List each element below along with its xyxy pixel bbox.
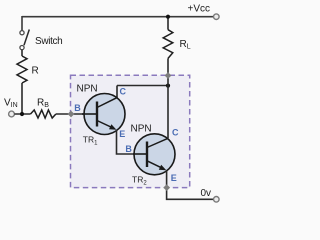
resistor RB [31, 110, 56, 118]
svg-text:+Vcc: +Vcc [188, 4, 211, 15]
svg-text:C: C [120, 87, 127, 97]
resistor R [17, 56, 27, 83]
svg-text:NPN: NPN [131, 124, 152, 135]
junction dot input node [20, 112, 24, 116]
resistor RL [163, 30, 173, 59]
switch S1 bottom contact [20, 46, 24, 50]
svg-text:0v: 0v [201, 188, 212, 199]
wire: TR1 collector to RL node [117, 85, 168, 87]
wire: rail to RL [167, 17, 169, 30]
canvas background [0, 0, 241, 209]
transistor TR2 collector lead [147, 138, 168, 147]
svg-text:E: E [119, 129, 125, 139]
svg-text:R: R [32, 66, 39, 77]
wire: TR2 emitter down to 0v [167, 171, 214, 200]
transistor TR1 base bar [96, 102, 98, 127]
wire: TR1 base lead inside body [82, 113, 97, 115]
svg-text:B: B [74, 103, 81, 113]
wire: Vin terminal to RB [14, 113, 30, 115]
+Vcc terminal [214, 14, 220, 20]
transistor TR1 collector lead [97, 86, 117, 108]
transistor TR2 base bar [146, 142, 148, 168]
transistor TR1 body [84, 94, 125, 135]
svg-text:B: B [125, 144, 132, 154]
junction dot collector node [166, 84, 170, 88]
transistor TR1 emitter arrowhead [109, 124, 117, 130]
switch S1 top contact [20, 31, 24, 35]
svg-text:NPN: NPN [77, 83, 98, 94]
transistor TR2 emitter lead [147, 161, 162, 168]
node diamond on box edge (collector) [165, 72, 172, 79]
wire: TR1 emitter to TR2 base [117, 130, 147, 154]
wire: R to input node [21, 83, 23, 114]
wire: switch to resistor R [21, 50, 23, 56]
wire: TR2 base lead inside body [133, 153, 147, 155]
Vin input terminal [9, 111, 15, 117]
wire: +Vcc top rail [22, 16, 214, 18]
darlington pair dashed enclosure box [71, 75, 190, 187]
node diamond on box edge (emitter) [163, 184, 170, 191]
wire: left rail down to switch [21, 16, 23, 31]
node diamond on box edge (base input) [68, 111, 75, 118]
wire: RL to TR2 collector [167, 58, 169, 138]
transistor TR2 emitter arrowhead [159, 165, 167, 171]
transistor TR2 body [134, 134, 175, 175]
svg-text:E: E [171, 173, 177, 183]
junction dot at rail [166, 15, 170, 19]
svg-text:C: C [172, 128, 179, 138]
svg-text:Switch: Switch [35, 36, 62, 47]
0v terminal [214, 197, 220, 203]
transistor TR1 emitter lead [97, 121, 112, 128]
wire: RB to TR1 base [56, 113, 97, 115]
switch S1 blade (open) [24, 30, 29, 46]
